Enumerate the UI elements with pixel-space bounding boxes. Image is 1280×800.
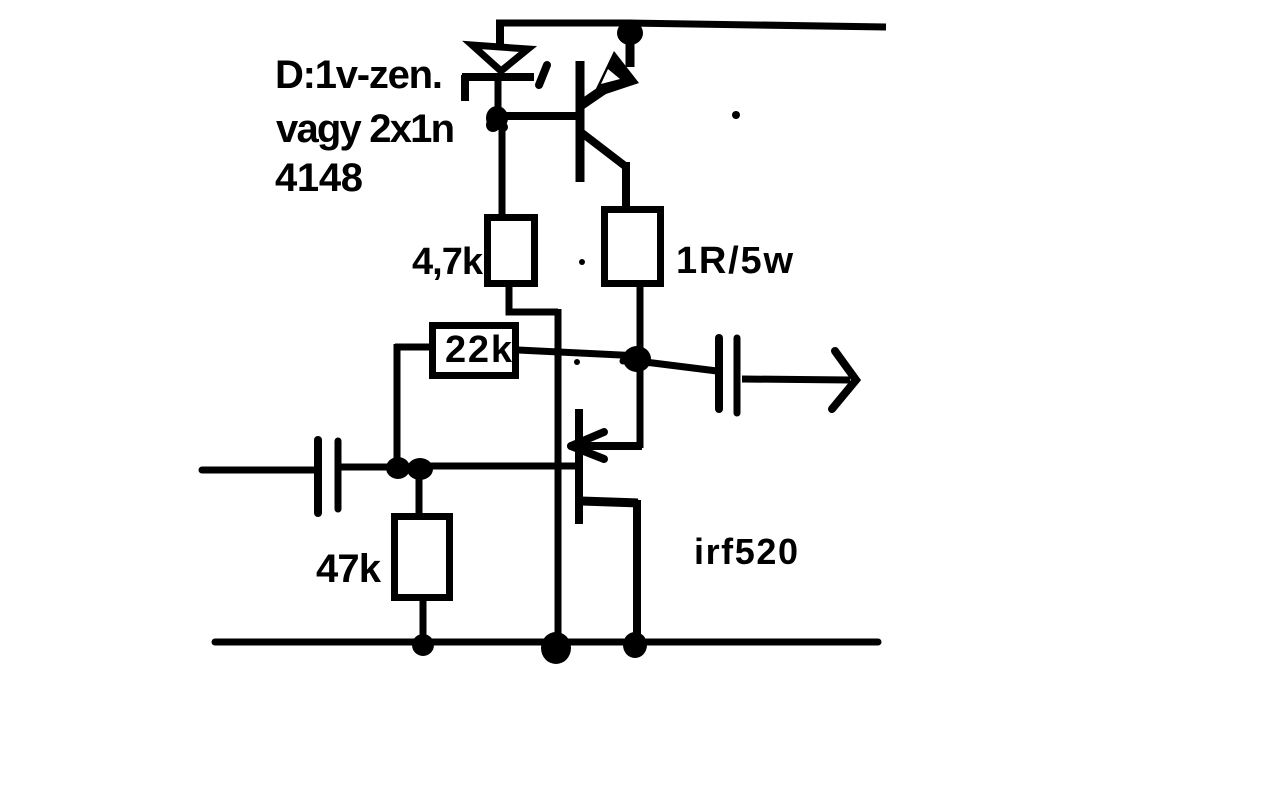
wire collector lead (622, 162, 630, 209)
wire long vertical to ground (555, 309, 562, 644)
wire 47k bottom lead (420, 598, 427, 640)
svg-text:irf520: irf520 (694, 531, 798, 572)
stray dot right (732, 111, 740, 119)
capacitor C2 left plate (715, 338, 723, 409)
slash mark near diode (539, 65, 547, 85)
capacitor C2 right plate (734, 338, 741, 413)
stray dot b (574, 359, 580, 365)
wire lead to 4,7k (499, 126, 506, 216)
capacitor C1 left plate (314, 440, 322, 513)
wire blob to gate (428, 463, 578, 470)
stray dot a (579, 259, 585, 265)
wire 4,7k bottom jog (509, 284, 558, 312)
diode D1 cathode left bend (461, 75, 469, 101)
wire zener top lead (496, 20, 504, 48)
transistor Q1 emitter arrowhead (591, 51, 639, 99)
wire input left (202, 467, 314, 474)
svg-text:4148: 4148 (275, 156, 363, 200)
node base junction blob (486, 106, 508, 130)
mosfet Q2 drain arm (576, 442, 642, 450)
node output junction blob (623, 346, 651, 372)
transistor Q1 base bar (576, 61, 585, 182)
wire cap to blob (341, 464, 392, 471)
node ground dot middle (541, 632, 571, 664)
resistor 22k (433, 326, 516, 376)
resistor 1R/5w (605, 210, 661, 284)
wire output junction to cap (645, 362, 717, 371)
wire base wire (503, 112, 578, 120)
diode D1 cathode bar (462, 73, 534, 81)
mosfet Q2 gate bar (575, 409, 583, 524)
arrow output arrowhead (832, 351, 856, 409)
node ground dot 47k (412, 634, 434, 656)
svg-text:D:1v-zen.: D:1v-zen. (275, 53, 443, 97)
wire source vertical (633, 500, 641, 644)
node rail junction blob (617, 21, 643, 45)
transistor Q1 collector diagonal (582, 133, 625, 166)
wire output right (742, 379, 850, 380)
diode D1 zener triangle (472, 45, 528, 71)
node input junction blobs (386, 457, 410, 479)
node ground dot right (623, 632, 647, 658)
svg-text:22k: 22k (445, 329, 513, 371)
transistor Q1 emitter diagonal (581, 81, 616, 105)
capacitor C1 right plate (335, 441, 342, 509)
wire 47k top lead (416, 477, 423, 517)
mosfet Q2 body arrow (571, 432, 604, 446)
wire zener bottom lead (495, 78, 502, 114)
wire emitter top lead (626, 40, 635, 67)
wire top supply rail (496, 23, 886, 27)
mosfet Q2 source arm (581, 501, 638, 503)
wire 22k left vertical (394, 344, 401, 462)
svg-text:47k: 47k (316, 547, 382, 591)
resistor 47k (395, 517, 450, 598)
wire 1R bottom lead / drain vertical (637, 286, 644, 448)
wire bottom ground rail (215, 639, 878, 646)
svg-text:4,7k: 4,7k (412, 241, 484, 283)
svg-text:vagy 2x1n: vagy 2x1n (276, 107, 455, 151)
resistor 4,7k (488, 218, 535, 284)
wire 22k left (395, 344, 432, 351)
wire 22k right (518, 350, 640, 356)
svg-text:1R/5w: 1R/5w (676, 240, 793, 282)
